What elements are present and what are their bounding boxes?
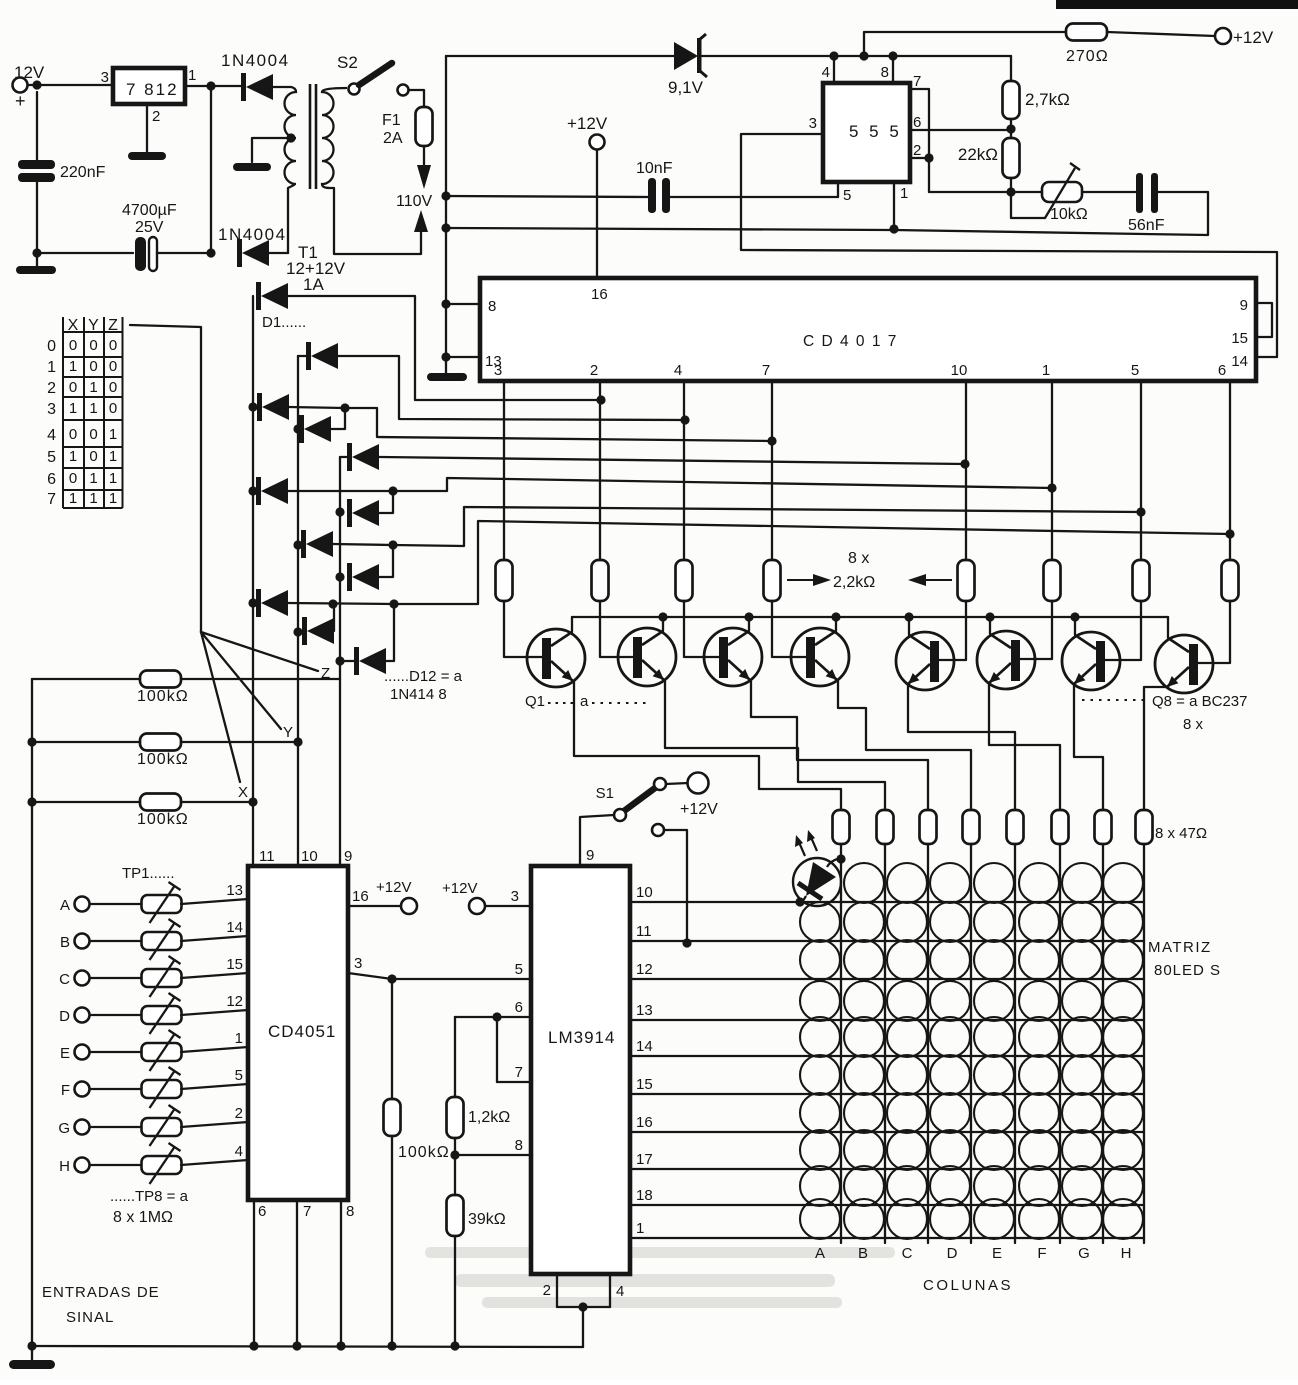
wire Y line left bbox=[32, 741, 140, 743]
svg-text:2: 2 bbox=[47, 380, 56, 397]
diode D lower 1N4004 bbox=[237, 239, 269, 267]
svg-text:5: 5 bbox=[515, 961, 523, 978]
wire supply node to 270R bbox=[864, 32, 1066, 56]
pin 3 of 7812 bbox=[101, 69, 109, 86]
wire Q5 collector bbox=[908, 617, 910, 635]
svg-text:3: 3 bbox=[47, 401, 56, 418]
transformer T1 secondary winding bbox=[285, 87, 297, 184]
wire pins 2-4 tie bbox=[557, 1306, 610, 1308]
wire 4700uF to rectifier node bbox=[157, 252, 211, 254]
pin 7 of CD4017 bbox=[762, 362, 770, 379]
svg-text:1: 1 bbox=[89, 470, 97, 487]
wire pointer to Z bbox=[201, 632, 318, 671]
junction left ground X bbox=[27, 797, 36, 806]
svg-text:100kΩ: 100kΩ bbox=[137, 751, 189, 768]
value 39k bbox=[468, 1211, 506, 1228]
junction 555 pin6 divider bbox=[1006, 124, 1015, 133]
LED matrix 80 LEDs bbox=[800, 863, 1143, 1239]
wire LM3914 output pin 10 row bbox=[630, 901, 1144, 903]
ground CD4017 bbox=[427, 373, 467, 381]
wire 555 pin1 stub bbox=[893, 182, 895, 229]
diode D9 1N4148 bbox=[347, 563, 379, 591]
svg-text:0: 0 bbox=[109, 337, 117, 354]
mains arrow up 110V bbox=[414, 210, 428, 232]
svg-text:B: B bbox=[858, 1245, 868, 1262]
svg-text:100kΩ: 100kΩ bbox=[137, 811, 189, 828]
terminal input B bbox=[75, 934, 90, 949]
junction D3-D4 tie bbox=[340, 403, 349, 412]
junction D8-D9 tie bbox=[388, 540, 397, 549]
svg-text:E: E bbox=[60, 1045, 70, 1062]
wire zener to 555 supply node bbox=[701, 55, 1011, 57]
svg-text:Z: Z bbox=[108, 317, 118, 334]
wire TP4 to CD4051 pin 12 bbox=[181, 1010, 248, 1015]
svg-text:8: 8 bbox=[881, 64, 889, 81]
pin 14 of CD4051 bbox=[226, 919, 243, 936]
terminal input F bbox=[75, 1082, 90, 1097]
svg-text:1,2kΩ: 1,2kΩ bbox=[468, 1109, 510, 1126]
pin 1 of LM3914 bbox=[636, 1220, 644, 1237]
svg-text:6: 6 bbox=[515, 999, 523, 1016]
label +12V bbox=[1233, 28, 1274, 47]
label column G bbox=[1078, 1245, 1090, 1262]
pin 4 of 555 bbox=[822, 64, 830, 81]
label +12V LM3914 bbox=[442, 880, 477, 897]
scan artifact top-right black strip bbox=[1056, 0, 1298, 9]
wire matrix column B bbox=[884, 844, 886, 1243]
label 12V output terminal bbox=[14, 63, 45, 82]
wire input D to TP4 bbox=[90, 1014, 142, 1016]
node input A bbox=[60, 897, 70, 914]
wire S1 to +12V bbox=[666, 783, 688, 784]
resistor 47R column G bbox=[1095, 810, 1112, 844]
wire Q5 emitter to 47R column E bbox=[908, 684, 1015, 810]
wire 10nF to 555 pin5 bbox=[670, 196, 838, 198]
wire CD4051 pin8 to ground bbox=[340, 1200, 342, 1346]
junction ground CD4017 pin13 bbox=[441, 352, 450, 361]
capacitor 220nF bbox=[18, 160, 55, 182]
value 220nF bbox=[60, 164, 106, 181]
label 8x bbox=[848, 550, 869, 567]
node Z bbox=[321, 665, 330, 682]
label column B bbox=[858, 1245, 868, 1262]
wire Q3 emitter to 47R column C bbox=[751, 681, 928, 810]
transistor Q4 BC237 bbox=[791, 628, 849, 686]
junction D6-D7 tie bbox=[388, 486, 397, 495]
svg-text:10nF: 10nF bbox=[636, 160, 673, 177]
svg-text:15: 15 bbox=[1231, 330, 1248, 347]
resistor 47R column A bbox=[833, 810, 850, 844]
pin 10 of LM3914 bbox=[636, 884, 653, 901]
svg-text:10: 10 bbox=[636, 884, 653, 901]
svg-text:3: 3 bbox=[101, 69, 109, 86]
wire CD4017 output 2 to 2.2k bbox=[599, 381, 601, 560]
svg-text:1: 1 bbox=[69, 490, 77, 507]
svg-text:2: 2 bbox=[152, 108, 160, 125]
svg-text:0: 0 bbox=[69, 426, 77, 443]
wire 10k wiper tie bbox=[1011, 192, 1045, 218]
junction ground 100k bbox=[387, 1341, 396, 1350]
svg-text:25V: 25V bbox=[135, 219, 164, 236]
svg-text:17: 17 bbox=[636, 1151, 653, 1168]
pin 7 of CD4051 bbox=[303, 1203, 311, 1220]
potentiometer 10k bbox=[1042, 163, 1082, 218]
junction 555 pin8 node bbox=[888, 51, 897, 60]
svg-text:4: 4 bbox=[822, 64, 830, 81]
svg-text:7 812: 7 812 bbox=[126, 80, 179, 99]
junction pin10 line D5 bbox=[960, 459, 969, 468]
wire 56nF return to ground rail bbox=[446, 192, 1208, 235]
zener diode 9.1V bbox=[674, 34, 707, 77]
svg-text:8 x 1MΩ: 8 x 1MΩ bbox=[113, 1209, 173, 1226]
junction ground CD4051 pin8 bbox=[336, 1341, 345, 1350]
label column A bbox=[815, 1245, 825, 1262]
resistor 2.2k #5 bbox=[958, 560, 975, 601]
wire X line to X bus bbox=[181, 801, 253, 803]
node X bbox=[238, 784, 248, 801]
svg-text:2,7kΩ: 2,7kΩ bbox=[1025, 90, 1070, 109]
svg-text:C D 4 0 1 7: C D 4 0 1 7 bbox=[803, 333, 898, 350]
junction ground CD4051 pin7 bbox=[292, 1341, 301, 1350]
pin 17 of LM3914 bbox=[636, 1151, 653, 1168]
label +12V S1 bbox=[680, 801, 718, 818]
svg-text:8 x: 8 x bbox=[1183, 716, 1204, 733]
svg-text:12: 12 bbox=[636, 961, 653, 978]
pin 2 of 555 bbox=[913, 142, 921, 159]
wire CD4017 output 1 to 2.2k bbox=[503, 381, 505, 560]
terminal +12V top right bbox=[1215, 28, 1231, 44]
wire pointer to Y bbox=[201, 632, 281, 729]
pin 9 of CD4017 bbox=[1240, 297, 1248, 314]
wire LM3914 output pin 13 row bbox=[630, 1019, 1144, 1021]
wire Q7 collector bbox=[1074, 617, 1076, 635]
value 10k bbox=[1050, 206, 1088, 223]
svg-text:1: 1 bbox=[47, 359, 56, 376]
label D1 bbox=[262, 314, 306, 331]
wire matrix column H bbox=[1143, 844, 1145, 1243]
svg-text:......TP8 = a: ......TP8 = a bbox=[110, 1188, 189, 1205]
svg-text:a: a bbox=[580, 693, 589, 710]
junction collector rail bbox=[1070, 612, 1079, 621]
pin 3 of CD4051 bbox=[354, 955, 362, 972]
junction timing node bbox=[1006, 187, 1015, 196]
label Q8 BC237 bbox=[1152, 693, 1247, 710]
counter U CD4017 bbox=[480, 278, 1256, 381]
wire 555 pin4 stub bbox=[833, 56, 835, 83]
svg-text:0: 0 bbox=[47, 338, 56, 355]
svg-text:H: H bbox=[1121, 1245, 1132, 1262]
svg-text:10kΩ: 10kΩ bbox=[1050, 206, 1088, 223]
junction rectifier output upper bbox=[206, 81, 215, 90]
wire D1 to CD4017 pin2 bbox=[288, 296, 601, 400]
wire supply to 2.7k bbox=[1010, 56, 1012, 81]
capacitor 4700uF 25V electrolytic bbox=[135, 237, 157, 271]
wire X line left bbox=[32, 801, 140, 803]
junction X bus pulldown bbox=[248, 797, 257, 806]
resistor 100k input bbox=[384, 1099, 401, 1136]
label column E bbox=[992, 1245, 1002, 1262]
wire Z bus bbox=[339, 457, 341, 866]
wire Q2 emitter to 47R column B bbox=[665, 681, 885, 810]
wire 2.2k to Q5 base bbox=[938, 601, 966, 660]
svg-text:COLUNAS: COLUNAS bbox=[923, 1277, 1013, 1294]
junction ground 10nF bbox=[441, 191, 450, 200]
junction pin4 line D2 bbox=[680, 415, 689, 424]
svg-text:7: 7 bbox=[913, 73, 921, 90]
ground 7812 pin2 bbox=[128, 152, 166, 160]
svg-text:F: F bbox=[1037, 1245, 1046, 1262]
wire to main ground bbox=[31, 1346, 33, 1360]
pin 9 of CD4051 bbox=[344, 848, 352, 865]
wire D3 D4 to CD4017 pin7 bbox=[345, 408, 772, 441]
diode D6 1N4148 bbox=[256, 477, 288, 505]
ground main bbox=[9, 1360, 55, 1369]
resistor 47R column H bbox=[1136, 810, 1153, 844]
junction 12V node bbox=[32, 80, 41, 89]
capacitor 56nF bbox=[1136, 173, 1158, 213]
svg-text:100kΩ: 100kΩ bbox=[398, 1144, 450, 1161]
svg-text:13: 13 bbox=[226, 882, 243, 899]
pin 8 of CD4017 bbox=[488, 298, 496, 315]
svg-text:4: 4 bbox=[47, 427, 56, 444]
wire TP7 to CD4051 pin 2 bbox=[181, 1122, 248, 1127]
junction LED1 cathode bbox=[795, 897, 804, 906]
wire D5 to CD4017 pin10 bbox=[379, 457, 965, 464]
LED column A row 1 bbox=[793, 858, 841, 906]
wire D6 D7 to CD4017 pin1 bbox=[393, 478, 1052, 491]
value 9.1V bbox=[668, 78, 704, 97]
wire S2 to fuse F1 bbox=[409, 90, 424, 107]
wire TP2 to CD4051 pin 14 bbox=[181, 936, 248, 941]
pin 1 of 555 bbox=[900, 185, 908, 202]
junction collector rail bbox=[904, 612, 913, 621]
svg-text:B: B bbox=[60, 934, 70, 951]
wire D4 anode tie bbox=[331, 408, 345, 429]
svg-text:9: 9 bbox=[344, 848, 352, 865]
label F1 bbox=[382, 112, 401, 129]
transistor Q5 BC237 bbox=[896, 632, 954, 690]
trimpot TP8 1M bbox=[142, 1143, 182, 1184]
svg-text:0: 0 bbox=[89, 337, 97, 354]
ground supply rail bbox=[16, 266, 56, 274]
svg-text:1: 1 bbox=[89, 400, 97, 417]
truth table X Y Z bbox=[47, 317, 122, 508]
svg-text:A: A bbox=[60, 897, 70, 914]
svg-text:1: 1 bbox=[69, 400, 77, 417]
scan artifact faint erased text bottom bbox=[425, 1247, 895, 1308]
junction ground CD4051 pin6 bbox=[249, 1341, 258, 1350]
svg-text:22kΩ: 22kΩ bbox=[958, 145, 998, 164]
resistor 22k bbox=[1003, 138, 1020, 178]
junction supply node bbox=[859, 51, 868, 60]
pin 15 of CD4017 bbox=[1231, 330, 1248, 347]
switch S1 throw upper bbox=[654, 778, 666, 790]
pin 7 of LM3914 bbox=[515, 1064, 523, 1081]
svg-text:S1: S1 bbox=[596, 785, 614, 802]
resistor 47R column D bbox=[963, 810, 980, 844]
transistor Q3 BC237 bbox=[704, 628, 762, 686]
svg-text:1: 1 bbox=[1042, 362, 1050, 379]
wire ground vertical bbox=[445, 56, 447, 373]
wire CD4017 output 3 to 2.2k bbox=[683, 381, 685, 560]
resistor 47R column B bbox=[877, 810, 894, 844]
pin 5 of CD4017 bbox=[1131, 362, 1139, 379]
svg-text:+12V: +12V bbox=[680, 801, 718, 818]
transistor Q7 BC237 bbox=[1062, 632, 1120, 690]
switch S2 lever bbox=[359, 63, 392, 85]
wire input H to TP8 bbox=[90, 1164, 142, 1166]
pin 4 of CD4051 bbox=[235, 1143, 243, 1160]
wire LM3914 pin6 bbox=[455, 1016, 531, 1018]
wire LM3914 output pin 18 row bbox=[630, 1204, 1144, 1206]
wire D2 cathode stub bbox=[298, 355, 306, 357]
pin 14 of LM3914 bbox=[636, 1038, 653, 1055]
svg-text:0: 0 bbox=[89, 426, 97, 443]
junction ground CD4017 pin8 bbox=[441, 299, 450, 308]
svg-text:1: 1 bbox=[188, 67, 196, 84]
svg-text:Q1: Q1 bbox=[525, 693, 545, 710]
value 100k Y bbox=[137, 751, 189, 768]
trimpot TP3 1M bbox=[142, 956, 182, 997]
svg-text:9,1V: 9,1V bbox=[668, 78, 704, 97]
junction X bus D10 bbox=[248, 598, 257, 607]
wire TP8 to CD4051 pin 4 bbox=[181, 1160, 248, 1165]
diode D upper 1N4004 bbox=[241, 73, 273, 101]
wire LM3914 pin4 stub bbox=[609, 1274, 611, 1307]
svg-text:11: 11 bbox=[636, 923, 652, 940]
node input B bbox=[60, 934, 70, 951]
junction collector rail bbox=[985, 612, 994, 621]
node input D bbox=[59, 1008, 70, 1025]
svg-text:G: G bbox=[1078, 1245, 1090, 1262]
node Y bbox=[283, 724, 293, 741]
svg-text:7: 7 bbox=[47, 491, 56, 508]
fuse F1 2A bbox=[416, 107, 433, 146]
value 100k X bbox=[137, 811, 189, 828]
svg-text:1: 1 bbox=[109, 448, 117, 465]
label D12 bbox=[384, 668, 463, 685]
wire 12V node to 220nF bbox=[36, 92, 38, 160]
svg-text:6: 6 bbox=[258, 1203, 266, 1220]
wire D9 anode tie bbox=[379, 545, 393, 577]
wire LM3914 output pin 14 row bbox=[630, 1055, 1144, 1057]
svg-text:MATRIZ: MATRIZ bbox=[1148, 939, 1212, 956]
wire Q6 emitter to 47R column F bbox=[989, 683, 1060, 810]
pin 16 of CD4051 bbox=[352, 888, 369, 905]
wire D8 D9 to CD4017 pin5 bbox=[393, 507, 1141, 546]
diode D8 1N4148 bbox=[301, 530, 333, 558]
wire Q1 collector bbox=[571, 617, 573, 632]
svg-text:0: 0 bbox=[89, 448, 97, 465]
wire D10 anode bbox=[288, 603, 394, 604]
wire D10 D11 D12 to CD4017 pin6 bbox=[394, 521, 1230, 604]
svg-text:TP1......: TP1...... bbox=[122, 865, 175, 882]
svg-text:8: 8 bbox=[515, 1137, 523, 1154]
junction pin8 node bbox=[450, 1150, 459, 1159]
wire Q8 emitter to 47R column H bbox=[1144, 687, 1167, 810]
wire table note leader bbox=[130, 325, 201, 632]
svg-text:4: 4 bbox=[235, 1143, 243, 1160]
trimpot TP4 1M bbox=[142, 993, 182, 1034]
wire Q7 emitter to 47R column G bbox=[1074, 684, 1103, 810]
junction X bus D3 bbox=[248, 402, 257, 411]
pin 2 of LM3914 bbox=[543, 1282, 551, 1299]
svg-text:11: 11 bbox=[259, 848, 275, 865]
wire 10k to 56nF bbox=[1082, 191, 1138, 193]
wire timing node bbox=[929, 191, 1042, 193]
svg-text:56nF: 56nF bbox=[1128, 217, 1165, 234]
wire pin6 to 1.2k bbox=[454, 1017, 456, 1097]
svg-text:+12V: +12V bbox=[376, 879, 411, 896]
transformer T1 primary winding bbox=[322, 88, 347, 188]
wire 555 pin8 stub bbox=[892, 56, 894, 83]
junction ground 56nF bbox=[441, 223, 450, 232]
wire 39k to ground rail bbox=[454, 1236, 456, 1346]
svg-text:D1......: D1...... bbox=[262, 314, 306, 331]
diode D11 1N4148 bbox=[302, 617, 334, 645]
svg-text:+12V: +12V bbox=[442, 880, 477, 897]
svg-text:1A: 1A bbox=[303, 275, 324, 294]
wire 2.2k to Q4 base bbox=[772, 601, 807, 657]
svg-text:8 x 47Ω: 8 x 47Ω bbox=[1155, 825, 1207, 842]
trimpot TP5 1M bbox=[142, 1030, 182, 1071]
pin 5 of LM3914 bbox=[515, 961, 523, 978]
junction X bus D6 bbox=[248, 486, 257, 495]
wire LM3914 output pin 1 row bbox=[630, 1237, 1144, 1239]
wire bottom ground rail bbox=[32, 1346, 583, 1347]
terminal +12V CD4051 bbox=[401, 898, 417, 914]
wire LM3914 pin8 bbox=[455, 1154, 531, 1156]
junction 555 pin1 ground bbox=[889, 224, 898, 233]
pin 6 of CD4051 bbox=[258, 1203, 266, 1220]
wire center tap to ground bbox=[252, 138, 291, 162]
svg-text:3: 3 bbox=[511, 888, 519, 905]
wire 1.2k to pin8 node bbox=[454, 1138, 456, 1155]
wire TP1 to CD4051 pin 13 bbox=[181, 899, 248, 904]
svg-text:9: 9 bbox=[586, 847, 594, 864]
svg-text:6: 6 bbox=[1218, 362, 1226, 379]
label Q1 bbox=[525, 693, 545, 710]
svg-text:5: 5 bbox=[1131, 362, 1139, 379]
wire pin6 to pin7 tie bbox=[496, 1017, 498, 1082]
wire lower diode to secondary bbox=[269, 252, 288, 254]
label MATRIZ bbox=[1148, 939, 1212, 956]
svg-text:6: 6 bbox=[47, 471, 56, 488]
diode D10 1N4148 bbox=[256, 589, 288, 617]
resistor 1.2k bbox=[447, 1097, 464, 1138]
svg-text:1: 1 bbox=[89, 490, 97, 507]
label column D bbox=[947, 1245, 958, 1262]
svg-text:7: 7 bbox=[762, 362, 770, 379]
svg-text:9: 9 bbox=[1240, 297, 1248, 314]
junction ground 39k bbox=[450, 1341, 459, 1350]
svg-text:14: 14 bbox=[1231, 353, 1248, 370]
wire matrix column F bbox=[1059, 844, 1061, 1243]
wire 555 pin3 output to CD4017 pin14 clock bbox=[741, 134, 1277, 357]
wire pin8 node to 39k bbox=[454, 1155, 456, 1195]
pin 5 of 555 bbox=[843, 187, 851, 204]
resistor 2.7k bbox=[1003, 81, 1020, 119]
node input G bbox=[58, 1120, 70, 1137]
junction 555 pin4 node bbox=[829, 51, 838, 60]
svg-text:2A: 2A bbox=[383, 130, 403, 147]
pin 8 of LM3914 bbox=[515, 1137, 523, 1154]
wire input C to TP3 bbox=[90, 977, 142, 979]
wire mains return to primary bbox=[334, 188, 421, 254]
svg-text:5: 5 bbox=[235, 1067, 243, 1084]
wire matrix column D bbox=[970, 844, 972, 1243]
resistor 2.2k #8 bbox=[1222, 560, 1239, 601]
